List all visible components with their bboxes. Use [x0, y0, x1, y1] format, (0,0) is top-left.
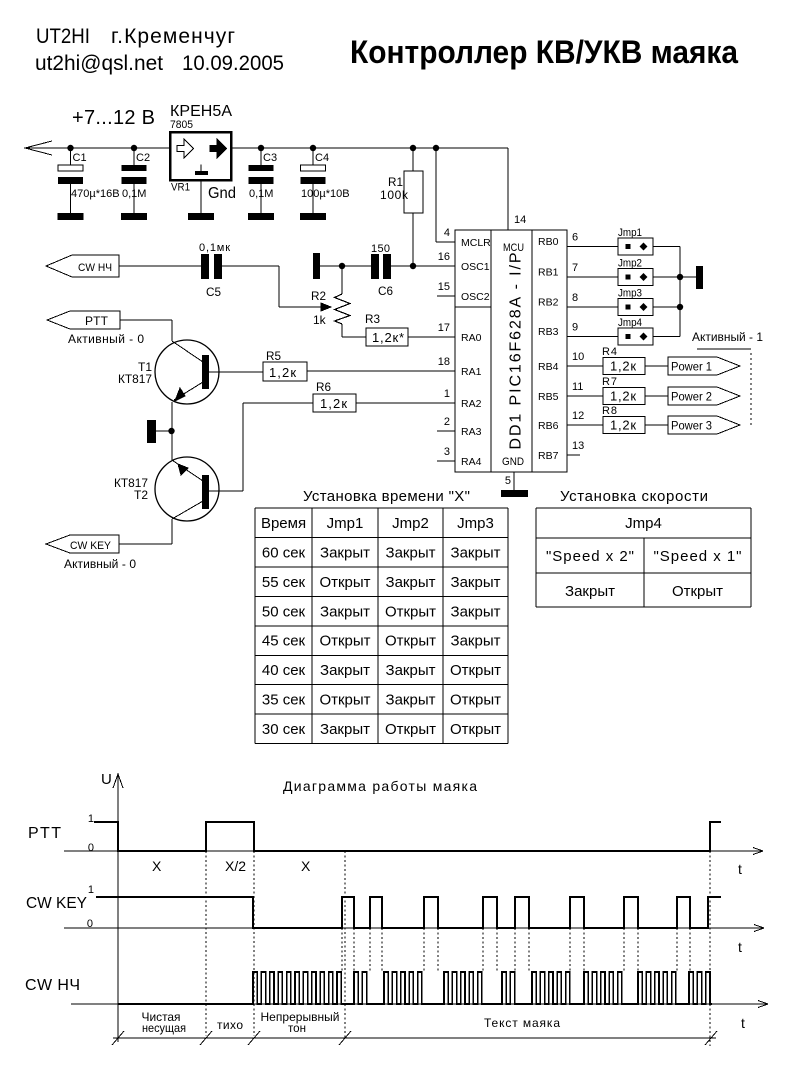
- svg-text:U: U: [101, 771, 112, 788]
- svg-text:КРЕН5А: КРЕН5А: [170, 103, 232, 120]
- svg-text:PTT: PTT: [85, 314, 109, 328]
- wire rail to pin 14: [507, 148, 509, 230]
- node junction R1 bottom OSC1: [410, 263, 416, 269]
- svg-text:50 сек: 50 сек: [262, 603, 306, 620]
- svg-text:R8: R8: [602, 405, 617, 417]
- svg-text:100µ*10В: 100µ*10В: [301, 188, 350, 200]
- capacitor C1 470u*16V: [67, 145, 73, 151]
- svg-text:Power 1: Power 1: [671, 360, 712, 374]
- svg-text:Открыт: Открыт: [450, 662, 501, 679]
- svg-text:40 сек: 40 сек: [262, 662, 306, 679]
- ground under C3: [248, 213, 274, 220]
- svg-text:C2: C2: [136, 152, 150, 164]
- wire T1 base to R5: [209, 371, 263, 373]
- dotted line tone start: [344, 851, 346, 1038]
- svg-text:Jmp2: Jmp2: [392, 515, 429, 532]
- svg-text:9: 9: [572, 322, 578, 334]
- svg-text:Открыт: Открыт: [672, 583, 723, 600]
- svg-text:тихо: тихо: [217, 1018, 243, 1032]
- wire bus to ground: [680, 276, 696, 278]
- dotted line text end: [709, 851, 711, 1046]
- waveform CW NCH pulse train: [118, 972, 712, 1004]
- svg-text:тон: тон: [288, 1021, 306, 1035]
- wire R6 to RA2: [356, 402, 455, 404]
- svg-text:OSC1: OSC1: [461, 261, 490, 273]
- resistor R8 1,2k: [567, 424, 603, 426]
- svg-text:+7...12 В: +7...12 В: [72, 107, 155, 129]
- axis CW KEY: [64, 927, 764, 929]
- svg-text:2: 2: [444, 416, 450, 428]
- ground bar pin 5: [501, 490, 528, 497]
- svg-text:RB7: RB7: [538, 450, 559, 462]
- dotted lines CW KEY edges: [341, 928, 343, 971]
- svg-text:RB2: RB2: [538, 297, 559, 309]
- node CW KEY flag: [46, 535, 119, 553]
- svg-text:Открыт: Открыт: [385, 633, 436, 650]
- transistor T1 KT817: [155, 340, 219, 404]
- dotted line X boundary 1: [205, 851, 207, 1036]
- svg-text:Закрыт: Закрыт: [451, 544, 501, 561]
- svg-text:Закрыт: Закрыт: [320, 544, 370, 561]
- svg-text:C3: C3: [263, 152, 277, 164]
- svg-text:7805: 7805: [170, 119, 193, 131]
- node CW NCH flag: [46, 255, 119, 277]
- wire T2 base to R6: [209, 490, 243, 492]
- svg-text:Открыт: Открыт: [319, 574, 370, 591]
- svg-text:R5: R5: [266, 349, 281, 363]
- svg-text:MCU: MCU: [503, 242, 524, 254]
- svg-text:Jmp4: Jmp4: [618, 317, 642, 329]
- svg-text:CW НЧ: CW НЧ: [78, 262, 112, 274]
- capacitor C6 150: [371, 254, 379, 279]
- wire C5 to R2 wiper: [222, 265, 279, 267]
- svg-text:CW KEY: CW KEY: [70, 540, 112, 552]
- svg-text:R2: R2: [311, 289, 326, 303]
- svg-text:14: 14: [514, 214, 526, 226]
- svg-text:t: t: [738, 861, 742, 877]
- resistor R2 1k potentiometer: [341, 266, 343, 294]
- svg-text:16: 16: [438, 251, 450, 263]
- node junction R2 top: [339, 263, 345, 269]
- svg-text:Открыт: Открыт: [450, 692, 501, 709]
- svg-text:X: X: [301, 858, 311, 874]
- ground under VR1: [200, 180, 202, 213]
- svg-text:Открыт: Открыт: [385, 721, 436, 738]
- IC DD1 PIC16F628A microcontroller body: [455, 230, 567, 472]
- node emitter junction: [168, 428, 174, 434]
- svg-text:Контроллер КВ/УКВ маяка: Контроллер КВ/УКВ маяка: [350, 34, 738, 70]
- svg-text:55 сек: 55 сек: [262, 574, 306, 591]
- svg-text:Закрыт: Закрыт: [451, 574, 501, 591]
- svg-text:45 сек: 45 сек: [262, 633, 306, 650]
- svg-text:Закрыт: Закрыт: [386, 662, 436, 679]
- svg-text:12: 12: [572, 410, 584, 422]
- wire R3 to RA0: [408, 336, 455, 338]
- svg-text:30 сек: 30 сек: [262, 721, 306, 738]
- svg-text:Установка времени "X": Установка времени "X": [303, 488, 470, 505]
- wire ground to C6: [320, 265, 371, 267]
- svg-text:С6: С6: [378, 284, 393, 298]
- svg-text:"Speed х 1": "Speed х 1": [654, 548, 742, 565]
- jumper Jmp4: [567, 336, 618, 338]
- svg-text:35 сек: 35 сек: [262, 692, 306, 709]
- svg-text:RA1: RA1: [461, 366, 482, 378]
- svg-text:3: 3: [444, 446, 450, 458]
- svg-text:C4: C4: [315, 152, 329, 164]
- svg-text:0,1мк: 0,1мк: [199, 242, 230, 254]
- svg-text:1,2к*: 1,2к*: [372, 330, 404, 345]
- capacitor C5 0,1mk: [201, 254, 209, 279]
- svg-text:С5: С5: [206, 285, 221, 299]
- svg-text:DD1 PIC16F628A - I/P: DD1 PIC16F628A - I/P: [508, 253, 525, 450]
- svg-text:R3: R3: [365, 312, 380, 326]
- svg-text:1: 1: [444, 388, 450, 400]
- resistor R1 100k: [410, 145, 416, 151]
- svg-text:Время: Время: [261, 515, 306, 532]
- wire T1 emitter down: [171, 402, 173, 460]
- wire MCLR to rail: [433, 145, 439, 151]
- node Power 2 flag: [645, 395, 668, 397]
- svg-text:Диаграмма работы маяка: Диаграмма работы маяка: [283, 778, 477, 794]
- svg-text:0: 0: [88, 842, 94, 854]
- node Power 3 flag: [645, 424, 668, 426]
- svg-text:Закрыт: Закрыт: [565, 583, 615, 600]
- svg-text:Jmp3: Jmp3: [457, 515, 494, 532]
- axis PTT: [64, 850, 763, 852]
- jumper Jmp2: [567, 276, 618, 278]
- svg-text:470µ*16В: 470µ*16В: [71, 188, 120, 200]
- node bus-jmp2: [677, 274, 683, 280]
- axis CW NCH: [71, 1003, 768, 1005]
- svg-text:t: t: [738, 939, 742, 955]
- capacitor C3 0,1M: [258, 145, 264, 151]
- svg-text:R4: R4: [602, 346, 617, 358]
- svg-text:OSC2: OSC2: [461, 291, 490, 303]
- svg-text:RB4: RB4: [538, 361, 559, 373]
- ground bar between transistors: [147, 420, 156, 443]
- svg-text:несущая: несущая: [142, 1021, 186, 1035]
- svg-text:4: 4: [444, 227, 450, 239]
- svg-text:Активный - 0: Активный - 0: [68, 332, 144, 346]
- resistor R6 1,2k: [313, 394, 356, 412]
- svg-text:RB5: RB5: [538, 391, 559, 403]
- svg-text:1: 1: [88, 884, 94, 896]
- wire R5 to RA1: [307, 370, 455, 372]
- svg-text:Закрыт: Закрыт: [451, 603, 501, 620]
- svg-text:Установка скорости: Установка скорости: [560, 488, 708, 505]
- resistor R3 1,2k*: [342, 336, 366, 338]
- node Power 1 flag: [645, 365, 668, 367]
- svg-text:1k: 1k: [313, 313, 327, 327]
- resistor R4 1,2k: [567, 365, 603, 367]
- svg-text:1: 1: [88, 813, 94, 825]
- svg-text:Jmp1: Jmp1: [618, 227, 642, 239]
- svg-text:RB0: RB0: [538, 236, 559, 248]
- svg-text:10.09.2005: 10.09.2005: [182, 52, 284, 75]
- svg-text:Закрыт: Закрыт: [386, 692, 436, 709]
- svg-text:GND: GND: [502, 456, 524, 468]
- svg-text:Jmp1: Jmp1: [327, 515, 364, 532]
- svg-text:1,2к: 1,2к: [269, 365, 296, 380]
- svg-text:1,2к: 1,2к: [610, 359, 636, 374]
- svg-text:10: 10: [572, 351, 584, 363]
- svg-text:C1: C1: [73, 152, 87, 164]
- wire PTT to T1 collector: [120, 319, 172, 321]
- svg-text:Закрыт: Закрыт: [320, 721, 370, 738]
- waveform PTT: [94, 822, 721, 851]
- svg-text:0,1М: 0,1М: [249, 188, 273, 200]
- svg-text:1,2к: 1,2к: [320, 396, 347, 411]
- svg-text:15: 15: [438, 281, 450, 293]
- svg-text:г.Кременчуг: г.Кременчуг: [111, 25, 235, 48]
- svg-text:VR1: VR1: [171, 182, 190, 194]
- svg-text:Активный - 0: Активный - 0: [64, 557, 136, 571]
- svg-text:Jmp4: Jmp4: [625, 515, 662, 532]
- svg-text:60 сек: 60 сек: [262, 544, 306, 561]
- svg-text:ut2hi@qsl.net: ut2hi@qsl.net: [35, 52, 163, 75]
- svg-text:X: X: [152, 858, 162, 874]
- ground bar osc net: [313, 253, 320, 279]
- input arrow: [25, 141, 52, 155]
- svg-text:UT2HI: UT2HI: [36, 25, 90, 48]
- jumper Jmp3: [567, 306, 618, 308]
- svg-text:t: t: [741, 1015, 745, 1031]
- svg-text:Закрыт: Закрыт: [320, 603, 370, 620]
- svg-text:"Speed х 2": "Speed х 2": [546, 548, 634, 565]
- svg-text:Gnd: Gnd: [208, 185, 236, 202]
- wire C6 to OSC1: [391, 265, 455, 267]
- resistor R7 1,2k: [567, 395, 603, 397]
- annotation slashes: [112, 1031, 124, 1045]
- svg-text:18: 18: [438, 356, 450, 368]
- svg-text:RA3: RA3: [461, 426, 482, 438]
- capacitor C4 100u*10V: [310, 145, 316, 151]
- annotation baseline: [113, 1037, 716, 1039]
- svg-text:CW KEY: CW KEY: [26, 895, 87, 912]
- svg-text:RA4: RA4: [461, 456, 482, 468]
- svg-text:13: 13: [572, 440, 584, 452]
- table time setup grid: [255, 507, 508, 509]
- svg-text:7: 7: [572, 262, 578, 274]
- waveform CW KEY: [96, 897, 721, 928]
- svg-text:RB6: RB6: [538, 420, 559, 432]
- svg-text:Power 3: Power 3: [671, 419, 712, 433]
- svg-text:11: 11: [572, 381, 583, 393]
- svg-text:1,2к: 1,2к: [610, 418, 636, 433]
- svg-text:MCLR: MCLR: [461, 237, 491, 249]
- svg-text:Открыт: Открыт: [385, 603, 436, 620]
- svg-text:1,2к: 1,2к: [610, 389, 636, 404]
- node bus-jmp3: [677, 304, 683, 310]
- svg-text:17: 17: [438, 322, 450, 334]
- svg-text:Jmp3: Jmp3: [618, 288, 642, 300]
- wire T2 collector to CW KEY: [171, 519, 173, 544]
- svg-text:R1: R1: [388, 175, 403, 189]
- ground under C4: [300, 213, 326, 220]
- svg-text:PTT: PTT: [28, 825, 61, 842]
- wiper arrow of R2: [321, 303, 331, 311]
- wire flag to C5: [119, 265, 201, 267]
- resistor R5 1,2k: [263, 362, 307, 381]
- wire power rail: [25, 147, 508, 149]
- ground under C1: [58, 213, 84, 220]
- ground under C2: [121, 213, 147, 220]
- svg-text:8: 8: [572, 292, 578, 304]
- svg-text:RB1: RB1: [538, 267, 559, 279]
- svg-text:Открыт: Открыт: [319, 692, 370, 709]
- svg-text:150: 150: [371, 243, 390, 255]
- svg-text:RA2: RA2: [461, 398, 482, 410]
- svg-text:6: 6: [572, 232, 578, 244]
- wire jumper bus: [679, 247, 681, 337]
- axis vertical U: [117, 774, 119, 1042]
- svg-text:R6: R6: [316, 380, 331, 394]
- svg-text:КТ817: КТ817: [118, 372, 152, 386]
- svg-text:5: 5: [505, 475, 511, 487]
- svg-text:Т2: Т2: [134, 488, 148, 502]
- transistor T2 KT817: [155, 457, 219, 521]
- table speed setup grid: [536, 507, 751, 509]
- svg-text:Открыт: Открыт: [319, 633, 370, 650]
- jumper Jmp1: [567, 246, 618, 248]
- svg-text:Power 2: Power 2: [671, 390, 712, 404]
- dotted line X boundary 2: [253, 851, 255, 1036]
- svg-text:CW НЧ: CW НЧ: [25, 977, 80, 994]
- svg-text:RA0: RA0: [461, 332, 482, 344]
- pin 5 GND stub: [513, 472, 515, 490]
- svg-text:Закрыт: Закрыт: [451, 633, 501, 650]
- svg-text:R7: R7: [602, 376, 617, 388]
- svg-text:100k: 100k: [380, 188, 409, 202]
- svg-text:Открыт: Открыт: [450, 721, 501, 738]
- svg-text:X/2: X/2: [225, 858, 246, 874]
- capacitor C2 0,1M: [131, 145, 137, 151]
- svg-text:Закрыт: Закрыт: [320, 662, 370, 679]
- svg-text:Закрыт: Закрыт: [386, 574, 436, 591]
- svg-text:Текст маяка: Текст маяка: [484, 1016, 560, 1030]
- ground bar jumpers: [696, 266, 703, 289]
- node PTT flag: [47, 311, 120, 329]
- svg-text:Закрыт: Закрыт: [386, 544, 436, 561]
- svg-text:RB3: RB3: [538, 326, 559, 338]
- svg-text:Активный - 1: Активный - 1: [692, 330, 763, 344]
- svg-text:Jmp2: Jmp2: [618, 258, 642, 270]
- svg-text:0,1М: 0,1М: [122, 188, 146, 200]
